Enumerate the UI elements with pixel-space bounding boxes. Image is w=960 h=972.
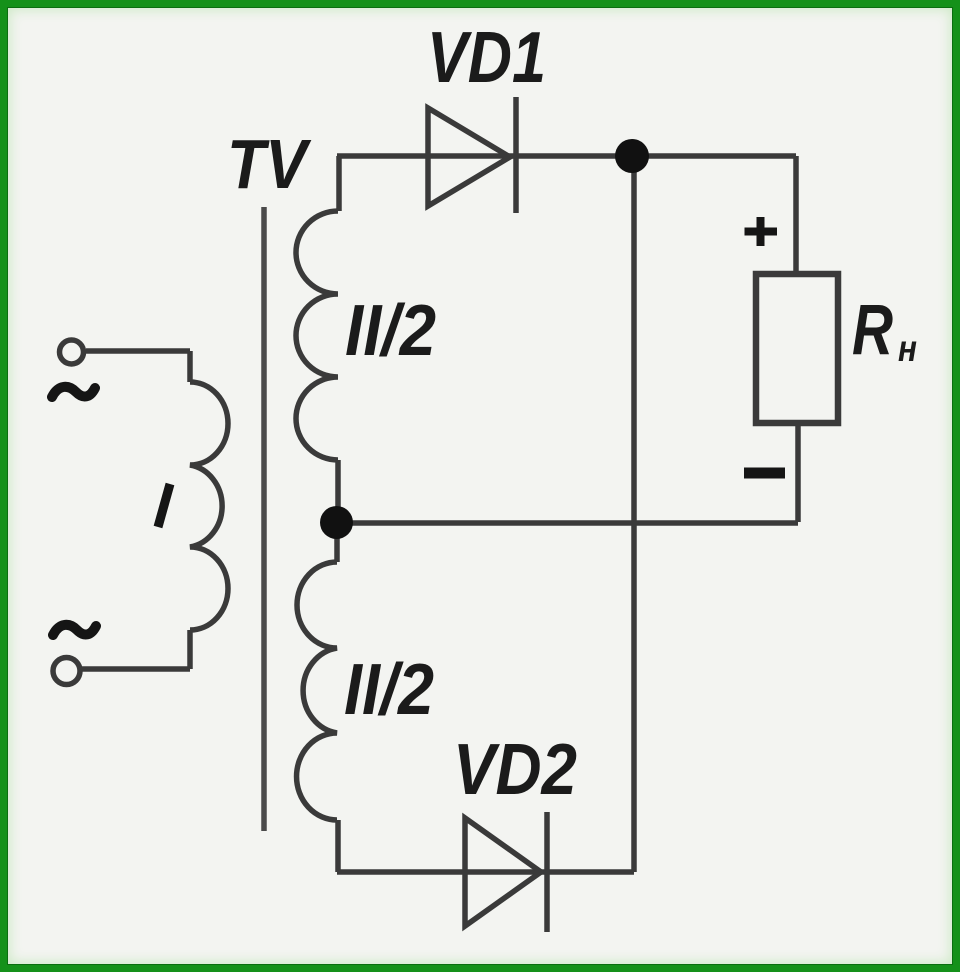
minus sign: [744, 468, 785, 479]
wire top rail: [337, 153, 796, 159]
wire secondary top stub: [336, 156, 342, 211]
diode VD1 triangle: [428, 108, 510, 206]
transformer primary winding I: [190, 382, 228, 630]
svg-text:II/2: II/2: [344, 650, 434, 730]
wire primary bottom stub: [187, 630, 193, 669]
svg-text:II/2: II/2: [345, 291, 436, 371]
primary terminal circle bottom: [53, 658, 80, 685]
wire upper winding to center tap: [335, 460, 341, 522]
wire resistor bottom stub: [795, 423, 801, 522]
wire cathode bus vertical: [631, 156, 637, 872]
resistor RH body: [756, 274, 838, 423]
wire primary top stub: [187, 351, 193, 382]
transformer secondary upper winding II/2: [296, 211, 338, 460]
wire center tap to lower winding: [334, 522, 340, 562]
node junction dot top: [615, 139, 649, 173]
primary terminal circle top: [60, 340, 84, 364]
plus sign: [745, 217, 778, 246]
diode VD1 cathode bar: [513, 97, 519, 213]
diode VD2 cathode bar: [544, 812, 550, 932]
diode VD2 triangle: [465, 818, 541, 926]
wire primary top: [86, 348, 190, 354]
label I primary winding: [158, 484, 170, 527]
ac tilde top: [52, 387, 95, 397]
wire center tap rail: [336, 520, 798, 526]
transformer core: [261, 207, 267, 831]
wire bottom rail: [337, 869, 634, 875]
node junction dot center tap: [320, 506, 353, 539]
svg-text:н: н: [898, 328, 917, 369]
svg-text:TV: TV: [227, 125, 312, 203]
wire resistor top stub: [793, 156, 799, 274]
ac tilde bottom: [53, 625, 96, 635]
transformer secondary lower winding II/2: [297, 562, 337, 820]
wire primary bottom: [82, 666, 190, 672]
svg-text:VD2: VD2: [453, 730, 577, 810]
wire lower winding bottom stub: [335, 820, 341, 872]
svg-text:VD1: VD1: [427, 18, 546, 98]
svg-text:R: R: [852, 291, 893, 370]
